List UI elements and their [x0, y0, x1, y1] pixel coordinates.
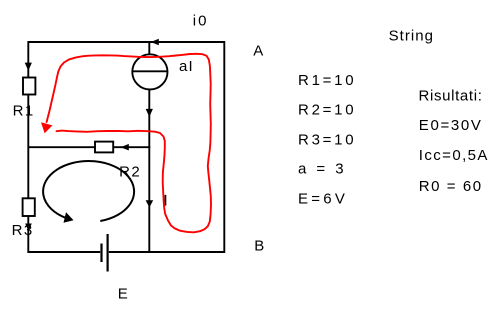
arrow on top wire (pointing left) — [151, 39, 159, 45]
wire middle vertical stub above current source — [148, 42, 150, 55]
wire bottom left of battery — [28, 251, 101, 253]
svg-text:A: A — [253, 42, 263, 59]
svg-text:R1: R1 — [13, 103, 35, 120]
wire middle vertical below current source — [148, 90, 150, 253]
resistor R1 — [23, 78, 35, 95]
svg-text:E=6V: E=6V — [298, 190, 348, 207]
resistor R3 — [23, 198, 35, 216]
svg-text:Icc=0,5A: Icc=0,5A — [419, 147, 489, 164]
arrow on middle wire upper (pointing down) — [146, 109, 153, 117]
mesh loop arrow (hand-drawn ellipse) — [43, 161, 134, 221]
svg-text:B: B — [254, 238, 264, 255]
red annotation curve — [47, 54, 211, 233]
svg-text:R1=10: R1=10 — [298, 72, 356, 89]
svg-text:Risultati:: Risultati: — [419, 87, 483, 104]
svg-text:String: String — [389, 28, 435, 45]
battery E long plate — [106, 234, 108, 272]
svg-text:E: E — [118, 285, 128, 302]
label I — [165, 195, 167, 206]
wire top — [28, 41, 226, 43]
wire bottom right of battery — [109, 251, 225, 253]
wire left middle — [27, 95, 29, 199]
arrow on middle wire lower (pointing down) — [146, 200, 154, 207]
battery E short plate — [100, 244, 102, 263]
arrow on R2 wire (pointing left) — [121, 144, 129, 151]
mesh loop arrowhead — [64, 212, 74, 223]
wire right — [223, 41, 225, 253]
wire left upper — [27, 41, 29, 78]
svg-text:R3=10: R3=10 — [298, 131, 356, 148]
wire middle horizontal (R2 branch) — [28, 146, 151, 148]
svg-text:R0 = 60: R0 = 60 — [419, 178, 483, 195]
svg-text:i0: i0 — [193, 13, 209, 30]
red arrowhead — [41, 122, 52, 133]
svg-text:aI: aI — [179, 58, 194, 75]
current source aI — [132, 54, 167, 89]
wire left lower — [27, 216, 29, 253]
arrow on left wire below R3 (pointing down) — [25, 224, 32, 232]
arrow on left wire (pointing down) — [25, 63, 32, 71]
svg-text:R2=10: R2=10 — [298, 102, 356, 119]
resistor R2 — [95, 142, 113, 153]
svg-text:a = 3: a = 3 — [298, 161, 347, 178]
svg-text:E0=30V: E0=30V — [419, 117, 483, 134]
